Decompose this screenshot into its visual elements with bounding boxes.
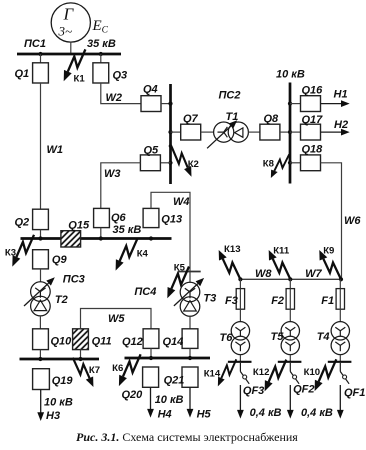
breaker Q10 xyxy=(33,329,73,350)
bus 4 xyxy=(125,357,211,360)
svg-text:Q19: Q19 xyxy=(52,375,74,387)
node on bus PC1 at Q1 xyxy=(38,52,42,56)
svg-text:0,4 кВ: 0,4 кВ xyxy=(250,407,282,419)
wire T2 to Q10 xyxy=(39,316,41,329)
wire bus PC1 to Q1 xyxy=(40,54,42,63)
wire W7 corner to F1 xyxy=(339,279,341,288)
svg-text:К3: К3 xyxy=(5,247,16,258)
disconnector Q15 (hatched, on bus 2) xyxy=(61,219,90,247)
node PC2L at Q7 xyxy=(168,130,172,134)
transformer T4 xyxy=(317,322,350,355)
svg-text:Q12: Q12 xyxy=(122,336,143,348)
breaker QF1 xyxy=(340,363,365,399)
fault K13 xyxy=(219,244,241,279)
svg-text:Q14: Q14 xyxy=(163,336,184,348)
fault K4 xyxy=(116,239,149,271)
svg-text:F3: F3 xyxy=(225,295,238,307)
node bus3 at Q10 xyxy=(38,357,42,361)
svg-text:QF1: QF1 xyxy=(344,387,365,399)
fuse F3 xyxy=(225,289,245,310)
wire W6 xyxy=(321,163,362,279)
bus 3 xyxy=(20,358,100,361)
svg-text:Q15: Q15 xyxy=(68,219,90,231)
fault K10 xyxy=(304,359,337,391)
wire Q6 to bus 2 xyxy=(100,228,102,239)
svg-text:W5: W5 xyxy=(108,313,125,325)
wire bus to Q17 xyxy=(290,131,301,133)
svg-text:Q5: Q5 xyxy=(144,144,160,156)
bus PC2 left section xyxy=(169,84,172,184)
svg-text:W3: W3 xyxy=(104,168,121,180)
transformer T5 xyxy=(271,322,300,355)
svg-text:T5: T5 xyxy=(271,331,285,343)
svg-text:К10: К10 xyxy=(304,367,321,378)
wire W4 xyxy=(151,192,190,282)
node W8-W7 at F2 xyxy=(288,277,292,281)
svg-text:К13: К13 xyxy=(224,244,241,255)
svg-text:W2: W2 xyxy=(106,92,123,104)
transformer T1 xyxy=(207,111,248,149)
wire F2 to T5 xyxy=(289,309,291,321)
breaker Q4 xyxy=(141,84,161,112)
svg-text:Г: Г xyxy=(63,5,75,24)
fault K1 xyxy=(64,49,86,84)
wire Q9 to T2 xyxy=(40,269,42,282)
fault K11 xyxy=(269,246,291,280)
breaker Q6 xyxy=(94,208,127,227)
svg-text:F2: F2 xyxy=(271,295,284,307)
svg-text:QF3: QF3 xyxy=(243,385,264,397)
load arrow 0.4 kV of T4 xyxy=(337,385,344,419)
node bus2 at Q6 xyxy=(99,236,103,240)
svg-text:Q6: Q6 xyxy=(111,212,127,224)
svg-text:W8: W8 xyxy=(255,268,272,280)
load arrow 0.4 kV of T6 xyxy=(237,385,282,419)
svg-text:Q4: Q4 xyxy=(143,84,158,96)
bus PC2 right section 10 kV xyxy=(289,83,292,184)
wire T4 to 0.4 kV bar xyxy=(339,355,341,362)
node bus2 at Q13 xyxy=(149,236,153,240)
svg-text:Q20: Q20 xyxy=(122,389,144,401)
svg-text:35 кВ: 35 кВ xyxy=(113,224,142,236)
svg-text:К4: К4 xyxy=(137,249,149,260)
0.4 kV bar of T6 xyxy=(228,361,252,363)
breaker Q8 xyxy=(260,113,280,140)
breaker Q16 xyxy=(301,84,324,111)
load arrow H5 xyxy=(187,387,212,420)
svg-text:T2: T2 xyxy=(55,294,68,306)
node W8 at F3 xyxy=(238,277,242,281)
wire T1 to Q8 xyxy=(248,131,260,133)
0.4 kV bar of T4 xyxy=(328,361,352,363)
breaker Q13 xyxy=(143,208,182,227)
wire W8 node to F3 xyxy=(239,279,241,288)
svg-text:10 кВ: 10 кВ xyxy=(155,394,184,406)
svg-text:Q3: Q3 xyxy=(113,70,128,82)
svg-text:T1: T1 xyxy=(226,111,239,123)
svg-text:К2: К2 xyxy=(188,159,199,170)
svg-text:Q7: Q7 xyxy=(183,113,199,125)
svg-text:Q10: Q10 xyxy=(51,335,73,347)
node PC2L at Q5 xyxy=(168,161,172,165)
0.4 kV bar of T5 xyxy=(278,361,302,363)
wire W7 node to F2 xyxy=(289,279,291,288)
node on bus PC1 at Q3 xyxy=(99,52,103,56)
transformer T3 xyxy=(174,278,216,316)
svg-text:К11: К11 xyxy=(273,246,290,257)
wire W2 xyxy=(101,83,141,104)
wire F3 to T6 xyxy=(239,309,241,321)
svg-text:К1: К1 xyxy=(74,74,86,85)
fault K3 xyxy=(5,235,34,267)
svg-text:W1: W1 xyxy=(47,144,64,156)
svg-text:К12: К12 xyxy=(253,367,270,378)
node 10kV bus at Q16 xyxy=(288,102,292,106)
wire W3 xyxy=(101,163,141,209)
svg-text:ПС2: ПС2 xyxy=(219,90,241,102)
svg-text:К14: К14 xyxy=(204,368,221,379)
svg-text:Q16: Q16 xyxy=(302,84,324,96)
load arrow H1 xyxy=(321,88,350,107)
node bus4 at Q12 xyxy=(149,356,153,360)
node 10kV bus at Q18 xyxy=(288,161,292,165)
svg-text:Q2: Q2 xyxy=(15,216,30,228)
svg-text:Q17: Q17 xyxy=(302,114,324,126)
breaker Q9 xyxy=(33,250,68,269)
svg-text:F1: F1 xyxy=(321,295,334,307)
fuse F2 xyxy=(271,289,294,310)
svg-text:К7: К7 xyxy=(89,365,100,376)
wire Q4 to PC2 left bus xyxy=(161,103,171,105)
svg-text:T3: T3 xyxy=(203,292,216,304)
wire bus to Q16 xyxy=(290,103,301,105)
svg-text:Рис. 3.1. Схема системы электр: Рис. 3.1. Схема системы электроснабжения xyxy=(76,430,298,444)
transformer T2 xyxy=(24,277,68,316)
svg-text:Q18: Q18 xyxy=(302,144,324,156)
fault K9 xyxy=(319,246,341,280)
wire Q2 to bus 2 xyxy=(40,230,42,239)
svg-text:Н2: Н2 xyxy=(334,119,348,131)
load arrow H3 with 10 kV label xyxy=(37,390,73,423)
fault K2 xyxy=(172,147,199,177)
wire bus PC1 to Q3 xyxy=(100,54,102,63)
svg-text:3~: 3~ xyxy=(58,24,73,39)
wire Q8 to 10 kV bus xyxy=(280,131,290,133)
svg-text:ПС1: ПС1 xyxy=(24,38,46,50)
fuse F1 xyxy=(321,289,344,310)
svg-text:Q1: Q1 xyxy=(15,68,30,80)
svg-text:Н5: Н5 xyxy=(197,408,212,420)
fault K14 xyxy=(204,359,237,386)
load arrow 0.4 kV of T5 xyxy=(287,385,333,419)
fault K6 xyxy=(112,354,141,386)
svg-text:Н1: Н1 xyxy=(334,88,348,100)
breaker Q19 xyxy=(33,369,74,390)
wire W1 xyxy=(41,83,64,209)
breaker Q1 xyxy=(15,63,49,83)
fault K7 xyxy=(73,358,100,387)
node bus3 at Q11 xyxy=(78,357,82,361)
wire Q14 to bus 4 xyxy=(189,348,191,358)
svg-text:T4: T4 xyxy=(317,331,330,343)
breaker Q18 xyxy=(301,144,324,171)
svg-text:Q8: Q8 xyxy=(264,113,280,125)
node 10kV bus at Q17 xyxy=(288,130,292,134)
svg-text:ПС4: ПС4 xyxy=(134,286,156,298)
wire PC2L to Q5 xyxy=(160,162,170,164)
node bus2 at Q2 xyxy=(38,236,42,240)
breaker Q3 xyxy=(93,63,127,83)
svg-text:К8: К8 xyxy=(263,159,275,170)
breaker Q2 xyxy=(15,209,49,229)
disconnector Q11 (hatched) xyxy=(73,329,112,350)
svg-text:W7: W7 xyxy=(305,268,322,280)
wire F1 to T4 xyxy=(339,309,341,321)
fault K8 xyxy=(263,154,290,178)
transformer T6 xyxy=(220,322,250,355)
svg-text:К9: К9 xyxy=(323,246,334,257)
bus PC1 35 kV xyxy=(17,53,121,56)
breaker Q7 xyxy=(181,113,201,140)
wire W7 W8 distribution line xyxy=(240,268,341,280)
breaker Q17 xyxy=(301,114,324,140)
wire PC2L to Q7 xyxy=(171,131,181,133)
svg-text:10 кВ: 10 кВ xyxy=(44,397,73,409)
node W7 at F1 xyxy=(339,277,343,281)
wire Q10 to bus 3 xyxy=(39,350,41,359)
wire Q11 to bus 3 xyxy=(80,350,82,359)
load arrow H4 xyxy=(147,387,172,420)
svg-text:35 кВ: 35 кВ xyxy=(87,38,116,50)
node PC2L at K2 xyxy=(169,144,173,148)
svg-text:10 кВ: 10 кВ xyxy=(276,69,305,81)
svg-text:0,4 кВ: 0,4 кВ xyxy=(301,407,333,419)
breaker Q21 xyxy=(164,367,198,387)
svg-text:W6: W6 xyxy=(344,215,361,227)
wire bus to Q18 xyxy=(290,162,301,164)
breaker QF3 xyxy=(240,363,264,397)
wire T6 to 0.4 kV bar xyxy=(239,355,241,362)
breaker Q5 xyxy=(140,144,160,170)
svg-text:К6: К6 xyxy=(112,363,123,374)
wire Q7 to T1 xyxy=(201,131,214,133)
fault K5 xyxy=(167,262,189,298)
wire T5 to 0.4 kV bar xyxy=(289,355,291,362)
breaker Q14 xyxy=(163,329,198,349)
svg-text:К5: К5 xyxy=(174,262,186,273)
node PC2L at Q4 xyxy=(168,102,172,106)
wire generator to bus PC1 xyxy=(70,42,72,53)
generator G with label xyxy=(51,3,90,42)
svg-text:Q9: Q9 xyxy=(52,254,68,266)
breaker QF2 xyxy=(290,363,314,395)
fault K12 xyxy=(253,360,286,392)
load arrow H2 xyxy=(321,119,350,136)
svg-text:Q13: Q13 xyxy=(161,214,182,226)
wire Q12 to bus 4 xyxy=(150,348,152,358)
svg-text:T6: T6 xyxy=(220,332,234,344)
wire T3 to Q14 xyxy=(189,316,191,329)
svg-text:Q21: Q21 xyxy=(164,375,185,387)
svg-text:Q11: Q11 xyxy=(92,335,112,347)
bus 2 (35 kV) xyxy=(21,237,172,240)
svg-text:W4: W4 xyxy=(173,196,190,208)
breaker Q12 xyxy=(122,329,159,349)
breaker Q20 xyxy=(122,367,159,401)
svg-text:ПС3: ПС3 xyxy=(63,273,85,285)
wire W5 xyxy=(81,309,152,329)
svg-text:QF2: QF2 xyxy=(293,383,314,395)
bus PC4 (short bar) xyxy=(134,272,200,298)
svg-text:Н3: Н3 xyxy=(46,410,60,422)
svg-text:Н4: Н4 xyxy=(158,408,172,420)
node bus4 at Q14 xyxy=(188,356,192,360)
